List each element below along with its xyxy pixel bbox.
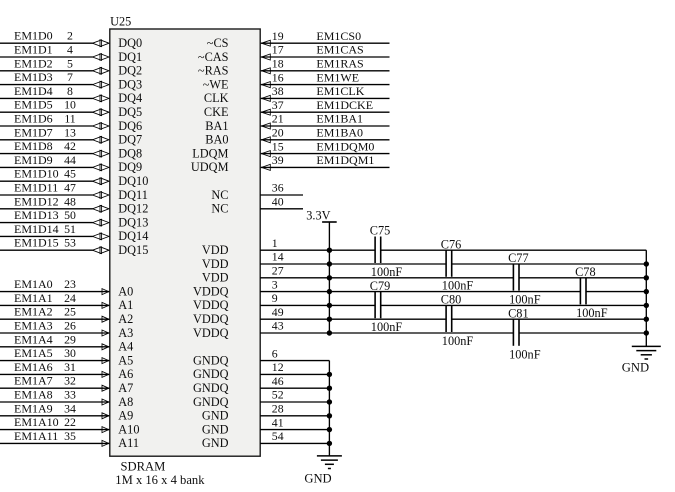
- wire net EM1WE to pin 16: [261, 84, 390, 86]
- svg-text:2: 2: [67, 29, 73, 43]
- wire net EM1A5 to pin 30: [0, 360, 109, 362]
- junction dot GND bus row 14: [644, 261, 649, 266]
- junction dot GND bus row 49: [644, 317, 649, 322]
- svg-text:6: 6: [272, 346, 278, 360]
- wire net EM1D15 to pin 53: [0, 249, 93, 251]
- svg-text:10: 10: [64, 98, 76, 112]
- capacitor C76: [446, 250, 452, 276]
- input pin marker A10: [102, 427, 109, 433]
- svg-text:DQ8: DQ8: [118, 146, 142, 160]
- wire net EM1D0 to pin 2: [0, 42, 93, 44]
- svg-text:38: 38: [272, 84, 284, 98]
- bidirectional pin marker DQ15: [93, 247, 102, 254]
- wire GND bus vertical (right): [645, 250, 647, 346]
- svg-text:40: 40: [272, 195, 284, 209]
- IC U25 SDRAM body: [110, 29, 260, 456]
- svg-text:EM1DQM0: EM1DQM0: [316, 139, 374, 153]
- svg-text:DQ4: DQ4: [118, 91, 142, 105]
- input pin marker UDQM: [262, 164, 271, 170]
- svg-text:31: 31: [64, 360, 76, 374]
- junction dot 3.3V bus row 14: [327, 261, 332, 266]
- junction dot GND bus row 27: [644, 275, 649, 280]
- svg-text:UDQM: UDQM: [191, 160, 229, 174]
- svg-text:100nF: 100nF: [371, 265, 403, 279]
- input pin marker A4: [102, 344, 109, 350]
- wire GNDQ pin 12 to GND bus: [260, 373, 329, 375]
- svg-text:GND: GND: [202, 422, 229, 436]
- wire net EM1A6 to pin 31: [0, 373, 109, 375]
- svg-text:EM1D13: EM1D13: [14, 208, 59, 222]
- bidirectional pin marker DQ8: [93, 150, 102, 157]
- svg-text:53: 53: [64, 236, 76, 250]
- svg-text:4: 4: [67, 43, 73, 57]
- capacitor C78: [580, 278, 586, 305]
- svg-text:EM1DCKE: EM1DCKE: [316, 98, 373, 112]
- svg-text:EM1D12: EM1D12: [14, 194, 59, 208]
- svg-text:DQ7: DQ7: [118, 133, 142, 147]
- input pin marker A7: [102, 385, 109, 391]
- svg-text:DQ0: DQ0: [118, 36, 142, 50]
- capacitor C80: [446, 306, 452, 333]
- svg-text:49: 49: [272, 305, 284, 319]
- svg-text:EM1RAS: EM1RAS: [316, 57, 363, 71]
- svg-text:DQ15: DQ15: [118, 243, 148, 257]
- svg-text:DQ1: DQ1: [118, 50, 142, 64]
- input pin marker A9: [102, 413, 109, 419]
- wire net EM1D10 to pin 45: [0, 180, 93, 182]
- svg-text:DQ3: DQ3: [118, 77, 142, 91]
- bidirectional pin marker DQ12: [93, 205, 102, 212]
- svg-text:EM1D9: EM1D9: [14, 153, 53, 167]
- input pin marker A5: [102, 358, 109, 364]
- svg-text:EM1D4: EM1D4: [14, 84, 53, 98]
- junction dot GND bus pin 28: [327, 413, 332, 418]
- wire net EM1D1 to pin 4: [0, 56, 93, 58]
- svg-text:EM1D15: EM1D15: [14, 236, 59, 250]
- wire net EM1D9 to pin 44: [0, 166, 93, 168]
- svg-text:~CAS: ~CAS: [198, 50, 229, 64]
- junction dot GND bus row 43: [644, 330, 649, 335]
- wire net EM1A11 to pin 35: [0, 442, 109, 444]
- svg-text:BA0: BA0: [205, 133, 228, 147]
- input pin marker ~CAS: [262, 54, 271, 60]
- svg-text:A7: A7: [118, 381, 133, 395]
- svg-text:A3: A3: [118, 326, 133, 340]
- wire net EM1A7 to pin 32: [0, 387, 109, 389]
- svg-text:54: 54: [272, 429, 284, 443]
- wire VDDQ pin 49 rail (3.3V side): [260, 318, 446, 320]
- svg-text:8: 8: [67, 84, 73, 98]
- svg-text:C77: C77: [508, 251, 528, 265]
- svg-text:EM1A1: EM1A1: [14, 291, 53, 305]
- svg-text:17: 17: [272, 43, 284, 57]
- svg-text:EM1D3: EM1D3: [14, 70, 53, 84]
- wire net EM1D14 to pin 51: [0, 235, 93, 237]
- svg-text:EM1A2: EM1A2: [14, 305, 53, 319]
- svg-text:39: 39: [272, 153, 284, 167]
- wire NC pin 40 stub: [260, 208, 303, 210]
- wire VDDQ pin 3 rail (3.3V side): [260, 291, 580, 293]
- wire 3.3V bus vertical: [328, 222, 330, 333]
- svg-text:GNDQ: GNDQ: [193, 381, 229, 395]
- svg-text:11: 11: [64, 112, 75, 126]
- svg-text:48: 48: [64, 194, 76, 208]
- svg-text:21: 21: [272, 112, 284, 126]
- svg-text:C79: C79: [370, 279, 391, 293]
- svg-text:EM1A7: EM1A7: [14, 374, 53, 388]
- svg-text:VDDQ: VDDQ: [193, 298, 229, 312]
- input pin marker A2: [102, 316, 109, 322]
- wire net EM1A4 to pin 29: [0, 346, 109, 348]
- svg-text:19: 19: [272, 29, 284, 43]
- svg-text:DQ2: DQ2: [118, 64, 142, 78]
- wire net EM1RAS to pin 18: [261, 70, 390, 72]
- input pin marker BA1: [262, 123, 271, 129]
- capacitor C81: [513, 319, 519, 346]
- svg-text:SDRAM: SDRAM: [121, 460, 166, 474]
- svg-text:5: 5: [67, 56, 73, 70]
- wire net EM1D2 to pin 5: [0, 70, 93, 72]
- input pin marker A3: [102, 330, 109, 336]
- input pin marker ~RAS: [262, 68, 271, 74]
- ground symbol (right): [632, 346, 661, 359]
- input pin marker A6: [102, 371, 109, 377]
- svg-text:46: 46: [272, 374, 284, 388]
- svg-text:VDDQ: VDDQ: [193, 284, 229, 298]
- svg-text:EM1BA1: EM1BA1: [316, 112, 363, 126]
- svg-text:GNDQ: GNDQ: [193, 395, 229, 409]
- input pin marker A1: [102, 302, 109, 308]
- wire net EM1D11 to pin 47: [0, 194, 93, 196]
- svg-text:VDDQ: VDDQ: [193, 326, 229, 340]
- junction dot GND bus row 3: [644, 289, 649, 294]
- bidirectional pin marker DQ7: [93, 136, 102, 143]
- svg-text:A9: A9: [118, 409, 133, 423]
- svg-text:1: 1: [272, 236, 278, 250]
- wire VDD pin 27 rail (3.3V side): [260, 277, 513, 279]
- svg-text:DQ6: DQ6: [118, 119, 142, 133]
- junction dot 3.3V bus row 9: [327, 303, 332, 308]
- wire net EM1DCKE to pin 37: [261, 111, 390, 113]
- svg-text:EM1CAS: EM1CAS: [316, 43, 363, 57]
- junction dot GND bus pin 41: [327, 427, 332, 432]
- svg-text:44: 44: [64, 153, 76, 167]
- wire capacitor C78 to GND bus rail: [586, 291, 646, 293]
- svg-text:DQ13: DQ13: [118, 215, 148, 229]
- svg-text:C81: C81: [508, 306, 528, 320]
- wire net EM1D5 to pin 10: [0, 111, 93, 113]
- svg-text:GND: GND: [622, 361, 649, 375]
- svg-text:32: 32: [64, 374, 76, 388]
- svg-text:A4: A4: [118, 340, 133, 354]
- svg-text:EM1A4: EM1A4: [14, 332, 53, 346]
- junction dot 3.3V bus row 1: [327, 248, 332, 253]
- svg-text:1M x 16 x 4 bank: 1M x 16 x 4 bank: [115, 473, 205, 487]
- input pin marker CLK: [262, 95, 271, 101]
- svg-text:18: 18: [272, 57, 284, 71]
- svg-text:A1: A1: [118, 298, 133, 312]
- bidirectional pin marker DQ3: [93, 81, 102, 88]
- svg-text:EM1BA0: EM1BA0: [316, 126, 363, 140]
- bidirectional pin marker DQ11: [93, 192, 102, 199]
- bidirectional pin marker DQ4: [93, 95, 102, 102]
- svg-text:51: 51: [64, 222, 76, 236]
- input pin marker CKE: [262, 109, 271, 115]
- svg-text:EM1CS0: EM1CS0: [316, 29, 361, 43]
- svg-text:VDD: VDD: [202, 271, 229, 285]
- junction dot 3.3V bus row 3: [327, 289, 332, 294]
- svg-text:EM1A0: EM1A0: [14, 277, 53, 291]
- svg-text:~WE: ~WE: [203, 77, 229, 91]
- svg-text:NC: NC: [211, 202, 228, 216]
- svg-text:13: 13: [64, 125, 76, 139]
- svg-text:DQ5: DQ5: [118, 105, 142, 119]
- svg-text:20: 20: [272, 126, 284, 140]
- svg-text:EM1CLK: EM1CLK: [316, 84, 364, 98]
- svg-text:45: 45: [64, 167, 76, 181]
- svg-text:C78: C78: [575, 265, 596, 279]
- svg-text:A10: A10: [118, 422, 139, 436]
- svg-text:16: 16: [272, 70, 284, 84]
- bidirectional pin marker DQ5: [93, 109, 102, 116]
- wire net EM1A10 to pin 22: [0, 429, 109, 431]
- svg-text:EM1A8: EM1A8: [14, 388, 53, 402]
- svg-text:CLK: CLK: [204, 91, 229, 105]
- svg-text:EM1D8: EM1D8: [14, 139, 53, 153]
- svg-text:EM1A10: EM1A10: [14, 415, 59, 429]
- ground symbol (bottom): [317, 456, 342, 469]
- wire net EM1A0 to pin 23: [0, 291, 109, 293]
- wire net EM1D3 to pin 7: [0, 84, 93, 86]
- wire net EM1CS0 to pin 19: [261, 42, 390, 44]
- wire net EM1A1 to pin 24: [0, 304, 109, 306]
- bidirectional pin marker DQ0: [93, 40, 102, 47]
- svg-text:30: 30: [64, 346, 76, 360]
- svg-text:DQ10: DQ10: [118, 174, 148, 188]
- svg-text:14: 14: [272, 250, 284, 264]
- junction dot 3.3V bus row 49: [327, 317, 332, 322]
- svg-text:9: 9: [272, 291, 278, 305]
- svg-text:EM1D10: EM1D10: [14, 167, 59, 181]
- svg-text:23: 23: [64, 277, 76, 291]
- svg-text:EM1A6: EM1A6: [14, 360, 53, 374]
- wire net EM1D8 to pin 42: [0, 153, 93, 155]
- wire net EM1D13 to pin 50: [0, 222, 93, 224]
- capacitor C75: [375, 237, 381, 264]
- svg-text:47: 47: [64, 181, 76, 195]
- wire capacitor C80 to GND bus rail: [452, 318, 647, 320]
- wire capacitor C79 to GND bus rail: [381, 304, 647, 306]
- svg-text:3.3V: 3.3V: [306, 209, 330, 223]
- wire VDDQ pin 9 rail (3.3V side): [260, 304, 375, 306]
- wire GND bus vertical (bottom): [328, 361, 330, 456]
- wire capacitor C77 to GND bus rail: [519, 277, 646, 279]
- svg-text:DQ9: DQ9: [118, 160, 142, 174]
- svg-text:36: 36: [272, 181, 284, 195]
- svg-text:EM1D5: EM1D5: [14, 98, 53, 112]
- input pin marker A0: [102, 289, 109, 295]
- wire net EM1A8 to pin 33: [0, 401, 109, 403]
- bidirectional pin marker DQ14: [93, 233, 102, 240]
- svg-text:U25: U25: [110, 15, 131, 29]
- junction dot GND bus pin 52: [327, 399, 332, 404]
- power symbol 3.3V bar: [322, 221, 337, 223]
- input pin marker ~CS: [262, 40, 271, 46]
- svg-text:GNDQ: GNDQ: [193, 367, 229, 381]
- svg-text:EM1A5: EM1A5: [14, 346, 53, 360]
- wire VDD pin 1 rail (3.3V side): [260, 249, 375, 251]
- svg-text:EM1A11: EM1A11: [14, 429, 58, 443]
- svg-text:100nF: 100nF: [442, 279, 474, 293]
- svg-text:LDQM: LDQM: [192, 146, 228, 160]
- svg-text:A5: A5: [118, 353, 133, 367]
- svg-text:EM1D14: EM1D14: [14, 222, 59, 236]
- wire net EM1D4 to pin 8: [0, 97, 93, 99]
- bidirectional pin marker DQ6: [93, 123, 102, 130]
- svg-text:22: 22: [64, 415, 76, 429]
- junction dot GND bus pin 46: [327, 386, 332, 391]
- svg-text:VDD: VDD: [202, 257, 229, 271]
- capacitor C77: [513, 264, 519, 291]
- svg-text:EM1WE: EM1WE: [316, 70, 359, 84]
- svg-text:100nF: 100nF: [576, 306, 608, 320]
- svg-text:EM1D6: EM1D6: [14, 112, 53, 126]
- svg-text:42: 42: [64, 139, 76, 153]
- svg-text:41: 41: [272, 415, 284, 429]
- svg-text:CKE: CKE: [204, 105, 229, 119]
- svg-text:A6: A6: [118, 367, 133, 381]
- svg-text:C76: C76: [441, 237, 462, 251]
- wire GNDQ pin 52 to GND bus: [260, 401, 329, 403]
- input pin marker LDQM: [262, 151, 271, 157]
- svg-text:VDD: VDD: [202, 243, 229, 257]
- svg-text:GND: GND: [202, 409, 229, 423]
- wire net EM1D6 to pin 11: [0, 125, 93, 127]
- svg-text:100nF: 100nF: [442, 334, 474, 348]
- svg-text:26: 26: [64, 319, 76, 333]
- svg-text:~RAS: ~RAS: [198, 64, 229, 78]
- svg-text:C75: C75: [370, 224, 391, 238]
- capacitor C79: [375, 292, 381, 319]
- wire NC pin 36 stub: [260, 194, 303, 196]
- svg-text:EM1D0: EM1D0: [14, 29, 53, 43]
- svg-text:34: 34: [64, 401, 76, 415]
- wire net EM1A9 to pin 34: [0, 415, 109, 417]
- svg-text:EM1A9: EM1A9: [14, 401, 53, 415]
- junction dot GND bus pin 12: [327, 372, 332, 377]
- svg-text:EM1D11: EM1D11: [14, 181, 58, 195]
- input pin marker ~WE: [262, 82, 271, 88]
- wire net EM1CLK to pin 38: [261, 97, 390, 99]
- svg-text:A8: A8: [118, 395, 133, 409]
- input pin marker A11: [102, 440, 109, 446]
- input pin marker A8: [102, 399, 109, 405]
- wire GND pin 28 to GND bus: [260, 415, 329, 417]
- wire net EM1BA0 to pin 20: [261, 139, 390, 141]
- wire net EM1A3 to pin 26: [0, 332, 109, 334]
- svg-text:EM1DQM1: EM1DQM1: [316, 153, 374, 167]
- svg-text:7: 7: [67, 70, 73, 84]
- wire VDD pin 14 rail (3.3V side): [260, 263, 446, 265]
- wire net EM1DQM0 to pin 15: [261, 153, 390, 155]
- junction dot 3.3V bus row 43: [327, 330, 332, 335]
- svg-text:EM1D7: EM1D7: [14, 125, 53, 139]
- svg-text:GND: GND: [202, 436, 229, 450]
- svg-text:DQ12: DQ12: [118, 202, 148, 216]
- wire net EM1A2 to pin 25: [0, 318, 109, 320]
- svg-text:15: 15: [272, 139, 284, 153]
- svg-text:GND: GND: [304, 471, 331, 485]
- svg-text:37: 37: [272, 98, 284, 112]
- junction dot GND bus pin 54: [327, 441, 332, 446]
- svg-text:BA1: BA1: [205, 119, 228, 133]
- svg-text:3: 3: [272, 277, 278, 291]
- svg-text:EM1A3: EM1A3: [14, 319, 53, 333]
- svg-text:25: 25: [64, 305, 76, 319]
- svg-text:100nF: 100nF: [509, 348, 541, 362]
- svg-text:24: 24: [64, 291, 76, 305]
- wire VDDQ pin 43 rail (3.3V side): [260, 332, 513, 334]
- wire net EM1DQM1 to pin 39: [261, 166, 390, 168]
- svg-text:DQ11: DQ11: [118, 188, 148, 202]
- svg-text:43: 43: [272, 319, 284, 333]
- svg-text:A11: A11: [118, 436, 139, 450]
- junction dot 3.3V bus row 27: [327, 275, 332, 280]
- bidirectional pin marker DQ2: [93, 67, 102, 74]
- svg-text:100nF: 100nF: [371, 320, 403, 334]
- svg-text:12: 12: [272, 360, 284, 374]
- bidirectional pin marker DQ13: [93, 219, 102, 226]
- wire GNDQ pin 46 to GND bus: [260, 387, 329, 389]
- svg-text:GNDQ: GNDQ: [193, 353, 229, 367]
- svg-text:EM1D1: EM1D1: [14, 43, 53, 57]
- svg-text:29: 29: [64, 332, 76, 346]
- svg-text:50: 50: [64, 208, 76, 222]
- svg-text:~CS: ~CS: [207, 36, 229, 50]
- wire capacitor C75 to GND bus rail: [381, 249, 647, 251]
- wire GNDQ pin 6 to GND bus: [260, 360, 329, 362]
- svg-text:EM1D2: EM1D2: [14, 56, 53, 70]
- input pin marker BA0: [262, 137, 271, 143]
- wire capacitor C76 to GND bus rail: [452, 263, 647, 265]
- svg-text:52: 52: [272, 388, 284, 402]
- wire net EM1BA1 to pin 21: [261, 125, 390, 127]
- svg-text:A2: A2: [118, 312, 133, 326]
- bidirectional pin marker DQ9: [93, 164, 102, 171]
- svg-text:NC: NC: [211, 188, 228, 202]
- wire net EM1CAS to pin 17: [261, 56, 390, 58]
- bidirectional pin marker DQ10: [93, 178, 102, 185]
- wire GND pin 41 to GND bus: [260, 429, 329, 431]
- wire net EM1D12 to pin 48: [0, 208, 93, 210]
- svg-text:27: 27: [272, 264, 284, 278]
- bidirectional pin marker DQ1: [93, 54, 102, 61]
- junction dot GND bus row 9: [644, 303, 649, 308]
- svg-text:DQ14: DQ14: [118, 229, 148, 243]
- svg-text:33: 33: [64, 388, 76, 402]
- svg-text:28: 28: [272, 402, 284, 416]
- wire GND pin 54 to GND bus: [260, 442, 329, 444]
- wire net EM1D7 to pin 13: [0, 139, 93, 141]
- svg-text:100nF: 100nF: [509, 292, 541, 306]
- svg-text:VDDQ: VDDQ: [193, 312, 229, 326]
- svg-text:C80: C80: [441, 293, 462, 307]
- wire capacitor C81 to GND bus rail: [519, 332, 646, 334]
- svg-text:A0: A0: [118, 284, 133, 298]
- svg-text:35: 35: [64, 429, 76, 443]
